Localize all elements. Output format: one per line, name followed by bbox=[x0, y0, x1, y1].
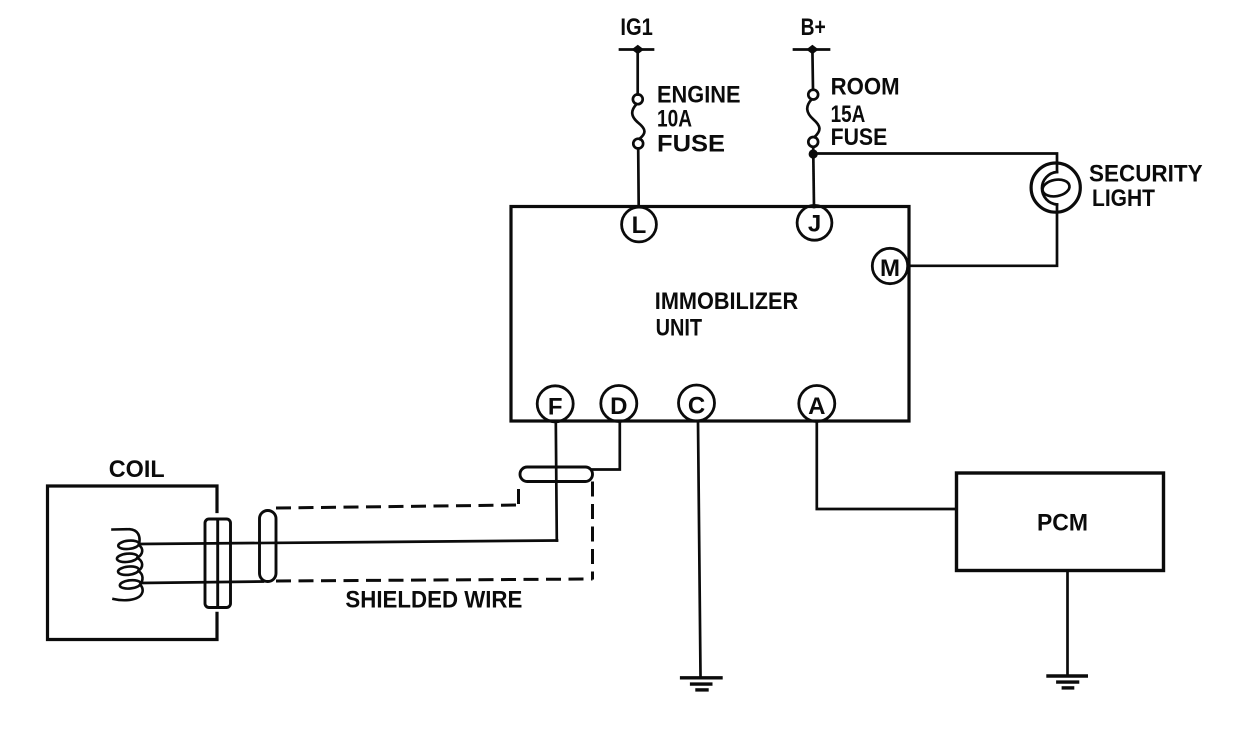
wire fuse to terminal L bbox=[637, 149, 640, 208]
junction node below ROOM fuse bbox=[809, 149, 818, 158]
svg-text:C: C bbox=[688, 393, 705, 420]
terminal C bbox=[679, 385, 715, 421]
wire B+ down to fuse bbox=[811, 50, 814, 90]
immobilizer unit box bbox=[511, 207, 909, 422]
label SECURITY LIGHT bbox=[1089, 160, 1203, 212]
wire junction to security light bbox=[813, 154, 1057, 173]
wire coil upper lead to terminal F line bbox=[140, 541, 557, 545]
ground (C) bbox=[682, 678, 721, 690]
svg-text:M: M bbox=[880, 255, 900, 282]
power terminal B+ bbox=[794, 45, 829, 55]
svg-text:PCM: PCM bbox=[1037, 509, 1088, 536]
label IMMOBILIZER UNIT bbox=[655, 288, 798, 342]
inductor (coil windings) bbox=[113, 529, 143, 600]
connector (two-bar) at coil output bbox=[205, 519, 231, 608]
svg-text:SHIELDED WIRE: SHIELDED WIRE bbox=[345, 587, 522, 614]
terminal J bbox=[797, 205, 832, 240]
ground (PCM) bbox=[1048, 676, 1086, 688]
terminal F bbox=[537, 386, 573, 422]
label ENGINE 10A FUSE bbox=[657, 82, 741, 158]
svg-text:10A: 10A bbox=[657, 105, 692, 132]
terminal L bbox=[622, 207, 657, 242]
terminal D bbox=[601, 386, 637, 422]
label ROOM 15A FUSE bbox=[831, 74, 900, 152]
fuse ROOM 15A bbox=[807, 90, 819, 147]
svg-text:D: D bbox=[610, 393, 627, 420]
svg-text:B+: B+ bbox=[801, 14, 826, 41]
fuse ENGINE 10A bbox=[632, 94, 644, 148]
wire lamp to terminal M bbox=[909, 205, 1058, 266]
power terminal IG1 bbox=[620, 45, 653, 55]
svg-text:A: A bbox=[808, 393, 825, 420]
wire terminal D to shield bar bbox=[593, 421, 620, 470]
svg-text:IMMOBILIZER: IMMOBILIZER bbox=[655, 288, 798, 315]
svg-text:IG1: IG1 bbox=[620, 14, 653, 41]
svg-text:F: F bbox=[548, 393, 563, 420]
svg-text:ROOM: ROOM bbox=[831, 74, 900, 101]
lamp SECURITY LIGHT bbox=[1031, 163, 1080, 212]
svg-text:UNIT: UNIT bbox=[656, 315, 703, 342]
wire PCM to ground bbox=[1066, 571, 1069, 675]
svg-text:SECURITY: SECURITY bbox=[1089, 160, 1203, 187]
wire junction to terminal J bbox=[812, 148, 815, 207]
svg-text:L: L bbox=[632, 212, 647, 239]
svg-text:J: J bbox=[808, 210, 821, 237]
connector pill (shield termination) bbox=[260, 511, 277, 582]
svg-text:FUSE: FUSE bbox=[831, 124, 888, 151]
wire terminal A to PCM bbox=[817, 421, 957, 509]
wire terminal C to ground bbox=[698, 421, 701, 676]
svg-text:LIGHT: LIGHT bbox=[1092, 185, 1155, 212]
shielded wire (dashed shield outline) bbox=[276, 482, 593, 582]
svg-text:COIL: COIL bbox=[109, 456, 165, 483]
svg-text:FUSE: FUSE bbox=[657, 131, 725, 158]
wire coil lower lead bbox=[141, 582, 263, 584]
wire IG1 down to fuse bbox=[636, 50, 639, 95]
coil box bbox=[48, 486, 218, 640]
terminal M bbox=[872, 248, 907, 283]
wire terminal F down bbox=[556, 421, 557, 541]
terminal A bbox=[799, 386, 835, 422]
shield connector bar (top) bbox=[520, 467, 593, 482]
PCM box bbox=[957, 473, 1164, 571]
